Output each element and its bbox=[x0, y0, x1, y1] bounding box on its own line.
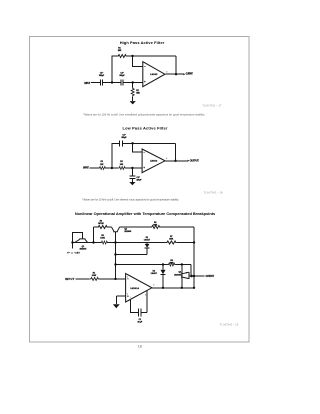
svg-text:R4: R4 bbox=[100, 220, 103, 223]
svg-text:Low Pass Active Filter: Low Pass Active Filter bbox=[123, 126, 168, 131]
svg-text:INPUT: INPUT bbox=[84, 82, 91, 85]
svg-text:2N2605: 2N2605 bbox=[174, 275, 181, 277]
svg-text:OUTPUT: OUTPUT bbox=[206, 275, 215, 278]
svg-text:6: 6 bbox=[166, 71, 167, 73]
svg-text:INPUT: INPUT bbox=[65, 277, 75, 281]
svg-text:*Values are for 10 kHz cutoff.: *Values are for 10 kHz cutoff. Use silve… bbox=[82, 197, 179, 201]
svg-text:TL/H/7041 – 18: TL/H/7041 – 18 bbox=[204, 192, 223, 195]
svg-text:INPUT: INPUT bbox=[83, 167, 89, 170]
svg-text:TL/H/7041 – 17: TL/H/7041 – 17 bbox=[203, 105, 222, 108]
svg-text:LM102: LM102 bbox=[150, 161, 158, 163]
svg-text:1N457: 1N457 bbox=[151, 272, 157, 275]
svg-text:Q3: Q3 bbox=[178, 272, 181, 274]
svg-text:LM102: LM102 bbox=[150, 74, 158, 76]
svg-text:18: 18 bbox=[138, 345, 142, 349]
svg-text:100K: 100K bbox=[92, 275, 97, 277]
svg-text:OUTPUT: OUTPUT bbox=[186, 73, 194, 76]
svg-text:30 pF: 30 pF bbox=[138, 322, 143, 324]
svg-text:8: 8 bbox=[145, 294, 146, 296]
svg-text:OUTPUT: OUTPUT bbox=[190, 159, 200, 162]
svg-text:0.02 μF: 0.02 μF bbox=[99, 75, 105, 77]
svg-text:10K: 10K bbox=[120, 164, 124, 166]
svg-text:2N2605: 2N2605 bbox=[124, 231, 131, 233]
svg-text:V⁻ = −15V: V⁻ = −15V bbox=[67, 251, 80, 254]
svg-text:6: 6 bbox=[166, 158, 167, 160]
svg-text:10K: 10K bbox=[100, 164, 104, 166]
svg-text:0.01 μF: 0.01 μF bbox=[119, 75, 125, 77]
svg-text:LM101A: LM101A bbox=[130, 287, 139, 290]
svg-text:TL/H/7041 – 19: TL/H/7041 – 19 bbox=[220, 323, 239, 326]
svg-text:100K: 100K bbox=[169, 238, 174, 240]
svg-text:C1*: C1* bbox=[122, 134, 126, 136]
svg-text:Nonlinear Operational Amplifie: Nonlinear Operational Amplifier with Tem… bbox=[75, 211, 215, 216]
svg-text:100K: 100K bbox=[100, 238, 105, 240]
svg-text:*Values are for 100 Hz cutoff.: *Values are for 100 Hz cutoff. Use metal… bbox=[83, 113, 205, 117]
svg-text:100K: 100K bbox=[170, 262, 175, 264]
svg-text:110K: 110K bbox=[136, 93, 140, 95]
svg-text:1: 1 bbox=[130, 297, 131, 299]
svg-text:2N2605: 2N2605 bbox=[80, 248, 87, 250]
svg-text:110K: 110K bbox=[118, 50, 122, 52]
svg-text:6: 6 bbox=[153, 285, 154, 287]
svg-text:187.5K: 187.5K bbox=[98, 223, 104, 225]
svg-text:100K: 100K bbox=[153, 225, 158, 227]
svg-text:470 pF: 470 pF bbox=[136, 179, 142, 182]
svg-text:High Pass Active Filter: High Pass Active Filter bbox=[120, 40, 165, 45]
svg-text:R2: R2 bbox=[136, 90, 139, 92]
svg-text:1N457: 1N457 bbox=[144, 238, 150, 241]
svg-text:560 pF: 560 pF bbox=[122, 137, 128, 139]
